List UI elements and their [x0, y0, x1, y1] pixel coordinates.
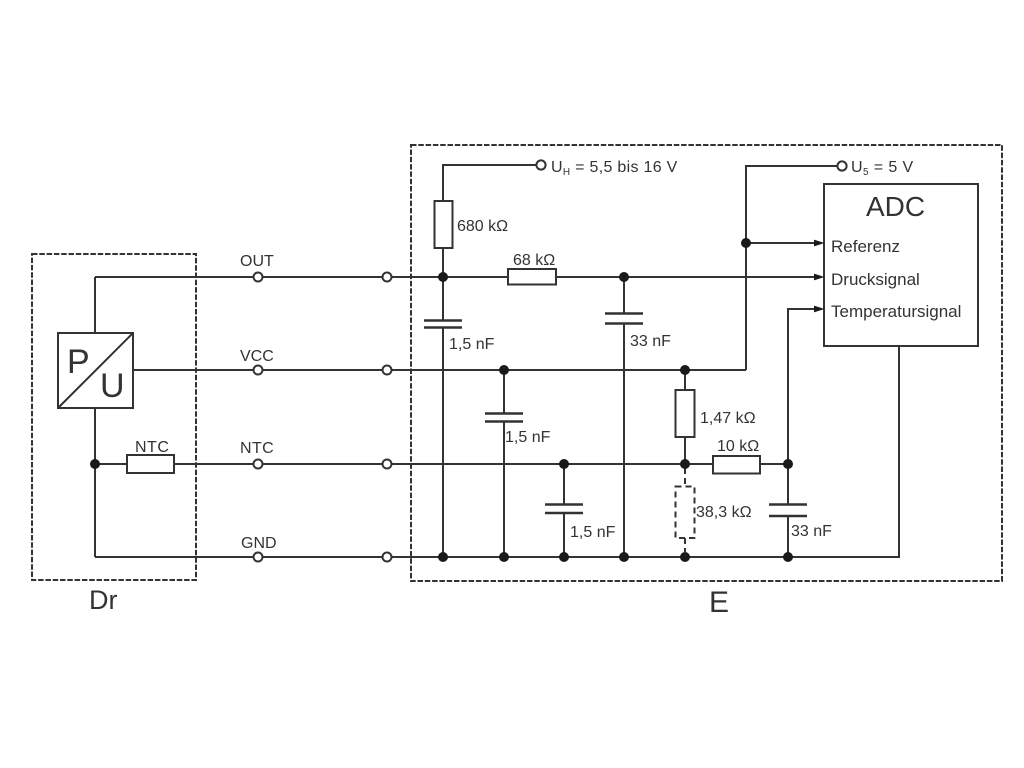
- capacitor 1.5nF C1 plates: [424, 319, 462, 322]
- sensor block P/U: [58, 333, 133, 408]
- svg-text:Dr: Dr: [89, 585, 118, 615]
- terminal circle NTC pin1: [254, 460, 263, 469]
- wire GND net with riser to ADC bottom: [95, 346, 899, 557]
- junction node VCC/C2: [499, 365, 509, 375]
- capacitor 1.5nF C3 plates: [545, 503, 583, 506]
- junction node GND/C2: [499, 552, 509, 562]
- wire OUT net (Drucksignal): [95, 276, 508, 278]
- junction node GND/C3: [559, 552, 569, 562]
- svg-text:33 nF: 33 nF: [630, 333, 671, 350]
- resistor 10k: [713, 456, 760, 474]
- junction node NTC/C3: [559, 459, 569, 469]
- wire column 33nF #1 (x=624): [623, 277, 625, 313]
- wire NTC net (middle): [174, 463, 713, 465]
- dashed leads of 38.3k: [684, 468, 686, 486]
- terminal circle GND pin2: [383, 553, 392, 562]
- arrow Referenz: [814, 240, 825, 247]
- wire column 1.47k (x=685): [684, 370, 686, 390]
- wire column 1.5nF #3 (x=564): [563, 464, 565, 504]
- wire NTC net (left of NTC resistor): [95, 463, 127, 465]
- ECU enclosure box E (dashed): [411, 145, 1002, 581]
- svg-text:GND: GND: [241, 535, 277, 552]
- terminal circle U5 supply: [837, 161, 846, 170]
- junction node OUT/680k: [438, 272, 448, 282]
- arrow Temperatursignal: [814, 306, 825, 313]
- sensor enclosure box Dr (dashed): [32, 254, 196, 580]
- wire VCC net: [133, 369, 746, 371]
- junction node Referenz: [741, 238, 751, 248]
- svg-text:U: U: [100, 367, 125, 405]
- wire Temperatursignal column (x=788): [788, 309, 814, 504]
- svg-text:Temperatursignal: Temperatursignal: [831, 302, 961, 321]
- junction node PU/NTC: [90, 459, 100, 469]
- svg-text:ADC: ADC: [866, 191, 925, 222]
- junction node OUT/33nF: [619, 272, 629, 282]
- resistor 680k: [435, 201, 453, 248]
- arrow Drucksignal: [814, 274, 825, 281]
- resistor NTC: [127, 455, 174, 473]
- svg-text:33 nF: 33 nF: [791, 523, 832, 540]
- wire column 1.5nF #2 (x=504): [503, 370, 505, 413]
- svg-text:VCC: VCC: [240, 348, 274, 365]
- terminal circle OUT pin2: [383, 273, 392, 282]
- svg-text:68 kΩ: 68 kΩ: [513, 252, 555, 269]
- ADC block U1: [824, 184, 978, 346]
- junction node NTC/33nF: [783, 459, 793, 469]
- terminal circle UH supply: [536, 160, 545, 169]
- svg-text:E: E: [709, 586, 729, 619]
- capacitor 33nF C4 plates: [605, 312, 643, 315]
- svg-text:680 kΩ: 680 kΩ: [457, 218, 508, 235]
- svg-text:NTC: NTC: [240, 440, 274, 457]
- svg-text:U5 = 5 V: U5 = 5 V: [851, 159, 914, 178]
- resistor 1.47k: [676, 390, 695, 437]
- terminal circle VCC pin1: [254, 366, 263, 375]
- svg-text:NTC: NTC: [135, 439, 169, 456]
- svg-text:38,3 kΩ: 38,3 kΩ: [696, 504, 752, 521]
- svg-text:1,47 kΩ: 1,47 kΩ: [700, 410, 756, 427]
- svg-text:Drucksignal: Drucksignal: [831, 270, 920, 289]
- terminal circle NTC pin2: [383, 460, 392, 469]
- wire: U5 terminal down to VCC: [746, 166, 837, 370]
- terminal circle GND pin1: [254, 553, 263, 562]
- wire Referenz arrow feed: [746, 242, 814, 244]
- resistor 38.3k (dashed, trimmed): [676, 487, 695, 539]
- svg-text:1,5 nF: 1,5 nF: [505, 429, 551, 446]
- junction node NTC/1.47k: [680, 459, 690, 469]
- svg-text:OUT: OUT: [240, 253, 274, 270]
- wire P/U top lead: [94, 277, 96, 333]
- svg-text:1,5 nF: 1,5 nF: [570, 524, 616, 541]
- wire: top supply to UH terminal: [443, 165, 537, 201]
- wire OUT after 68k to ADC arrow: [556, 276, 814, 278]
- wire column 680k/1.5nF (x=443): [442, 248, 444, 320]
- svg-text:P: P: [67, 343, 90, 381]
- svg-text:1,5 nF: 1,5 nF: [449, 336, 495, 353]
- terminal circle VCC pin2: [383, 366, 392, 375]
- svg-text:UH = 5,5 bis 16 V: UH = 5,5 bis 16 V: [551, 159, 678, 178]
- capacitor 33nF C5 plates: [769, 503, 807, 506]
- terminal circle OUT pin1: [254, 273, 263, 282]
- svg-text:Referenz: Referenz: [831, 237, 900, 256]
- junction node VCC/1.47k: [680, 365, 690, 375]
- wire P/U bottom lead to GND: [94, 408, 96, 557]
- resistor 68k: [508, 269, 556, 285]
- capacitor 1.5nF C2 plates: [485, 412, 523, 415]
- svg-text:10 kΩ: 10 kΩ: [717, 438, 759, 455]
- junction node GND/C1: [438, 552, 448, 562]
- junction node GND/C4: [619, 552, 629, 562]
- junction node GND/38.3k: [680, 552, 690, 562]
- junction node GND/C5: [783, 552, 793, 562]
- wire NTC net (right of 10k): [760, 463, 788, 465]
